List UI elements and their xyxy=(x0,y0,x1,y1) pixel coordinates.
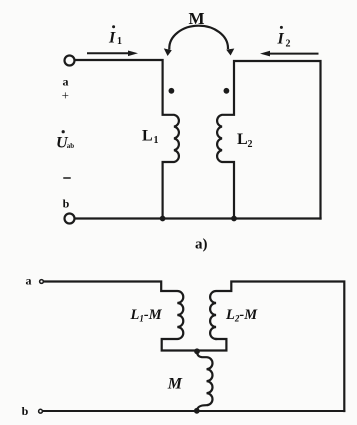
svg-text:1: 1 xyxy=(154,135,159,146)
svg-text:2: 2 xyxy=(286,38,291,49)
svg-text:ab: ab xyxy=(67,142,75,150)
svg-text:M: M xyxy=(167,376,183,393)
svg-text:M: M xyxy=(189,9,205,28)
svg-text:+: + xyxy=(62,87,69,102)
svg-text:a: a xyxy=(26,274,32,288)
svg-text:2: 2 xyxy=(248,139,253,150)
svg-text:L2-M: L2-M xyxy=(225,307,258,324)
svg-text:L1-M: L1-M xyxy=(130,307,163,324)
svg-text:b: b xyxy=(22,404,29,418)
svg-text:I: I xyxy=(277,31,285,48)
svg-text:L: L xyxy=(142,128,153,145)
svg-text:a): a) xyxy=(195,237,208,253)
svg-text:1: 1 xyxy=(117,36,122,47)
svg-text:b: b xyxy=(63,197,70,211)
svg-text:I: I xyxy=(108,30,116,47)
svg-text:L: L xyxy=(237,131,248,148)
